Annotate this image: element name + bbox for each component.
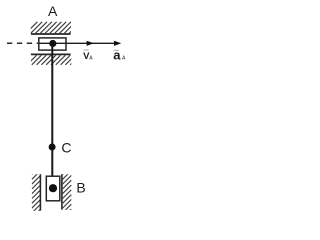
arrowhead V_A <box>87 41 94 46</box>
overbar V <box>84 49 89 51</box>
arrowhead a_A <box>114 41 121 46</box>
svg-text:A: A <box>48 3 58 19</box>
svg-text:B: B <box>76 180 85 196</box>
pin A <box>49 40 56 47</box>
top guide hatching <box>26 22 81 33</box>
slider B body <box>46 176 60 201</box>
pin B <box>49 184 57 192</box>
line through slider A <box>39 42 66 44</box>
right wall line <box>61 174 63 209</box>
arrow line <box>66 42 119 44</box>
slider A body <box>39 38 66 50</box>
left wall line <box>39 174 41 210</box>
overbar a <box>113 49 118 51</box>
dashed centerline <box>7 42 39 44</box>
right wall hatching <box>63 166 72 218</box>
link AB <box>51 45 53 176</box>
bottom guide wall line <box>31 53 71 55</box>
top guide wall line <box>31 33 71 35</box>
svg-text:a: a <box>113 47 121 62</box>
pin C <box>49 144 56 151</box>
svg-text:C: C <box>61 140 71 156</box>
bottom guide hatching <box>27 55 80 65</box>
left wall hatching <box>32 166 40 218</box>
